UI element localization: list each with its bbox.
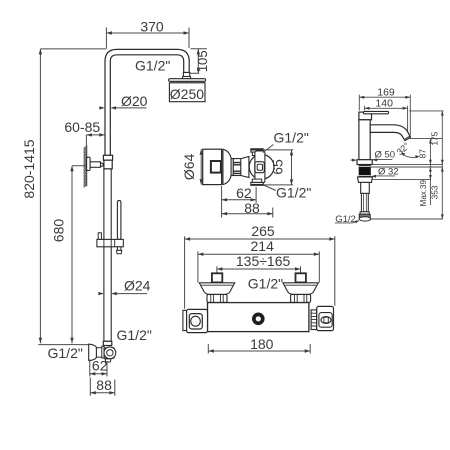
- slider block on rail: [103, 155, 112, 169]
- mixer body trapezoid: [241, 157, 249, 178]
- sliding rail tube: [104, 169, 111, 341]
- label diameter 32 with leader: [371, 166, 399, 177]
- label G1/2 inch mixer top inlet: [263, 130, 309, 153]
- svg-text:87: 87: [417, 149, 427, 159]
- wall elbow outlet: [105, 359, 111, 362]
- wall elbow body square: [104, 348, 114, 358]
- left union nut: [207, 294, 227, 302]
- svg-text:G1/2": G1/2": [117, 327, 152, 343]
- dimension diameter 64 (handle): [181, 149, 203, 184]
- mixer front outlet square: [255, 162, 264, 173]
- svg-text:60-85: 60-85: [64, 119, 100, 135]
- svg-text:Ø64: Ø64: [181, 153, 197, 180]
- dimension 135 to 165 (union centers): [217, 253, 301, 272]
- temperature dial: [252, 313, 265, 326]
- threaded shank: [359, 165, 371, 177]
- dimension 140 (spout reach): [365, 98, 408, 136]
- svg-text:214: 214: [251, 238, 275, 254]
- mixer bottom outlet flange: [251, 179, 263, 185]
- dimension 88 (wall to elbow front): [90, 377, 115, 396]
- svg-text:Ø20: Ø20: [121, 93, 148, 109]
- dimension 87 and Max39 line: [417, 139, 431, 205]
- svg-text:G1/2": G1/2": [135, 58, 170, 74]
- label G1/2 inch mixer bottom outlet: [264, 184, 312, 200]
- shower head connector: [182, 73, 191, 79]
- svg-text:353: 353: [429, 185, 439, 199]
- shower head top plate: [169, 79, 206, 82]
- shower head body with label: [169, 83, 205, 102]
- wall hatching: [84, 145, 87, 188]
- wall elbow neck: [96, 348, 101, 357]
- wall elbow washer: [102, 346, 104, 358]
- svg-text:Ø 50: Ø 50: [375, 149, 396, 160]
- svg-text:G1/2": G1/2": [276, 184, 311, 200]
- svg-text:65: 65: [269, 159, 285, 175]
- holder knob: [98, 233, 101, 240]
- hose end fitting: [359, 212, 371, 221]
- dimension 62 (mixer depth to outlet): [222, 185, 257, 218]
- svg-text:180: 180: [250, 336, 274, 352]
- angle arc with arrows: [401, 153, 420, 159]
- mixer handle face square: [211, 161, 221, 173]
- mounting nut: [358, 177, 373, 194]
- svg-text:175: 175: [429, 131, 439, 145]
- label diameter 50 with leader: [350, 149, 395, 161]
- wall bracket arm: [90, 162, 103, 168]
- svg-text:62: 62: [92, 357, 108, 373]
- mixer handle cylinder: [203, 149, 222, 184]
- svg-text:88: 88: [96, 377, 112, 393]
- dimension 62 (wall to elbow center): [90, 357, 108, 376]
- svg-text:Max.39: Max.39: [419, 180, 428, 207]
- dimension 175 and 353 line: [429, 111, 443, 219]
- wall elbow bell: [89, 344, 97, 360]
- shower riser pipe with bent arm: [105, 49, 189, 155]
- svg-text:62: 62: [236, 185, 252, 201]
- dimension 680 (bracket to elbow): [51, 166, 87, 343]
- reference lines right side: [371, 111, 444, 219]
- hand shower holder: [97, 239, 123, 246]
- left union cover bell: [199, 283, 234, 295]
- faucet base flange: [357, 160, 372, 165]
- mixer front strip: [255, 151, 265, 183]
- spout aerator line: [405, 136, 410, 139]
- right union nut: [291, 294, 311, 302]
- svg-text:135÷165: 135÷165: [236, 253, 291, 269]
- mixer top inlet flange: [251, 149, 263, 156]
- left end ring: [183, 310, 187, 330]
- svg-text:G1/2": G1/2": [248, 276, 283, 292]
- right end ring: [311, 310, 317, 330]
- svg-text:105: 105: [195, 50, 210, 72]
- right union cover bell: [283, 283, 318, 295]
- dimension 105 (arm to head): [190, 49, 210, 74]
- dimension diameter 24: [98, 277, 150, 295]
- dimension diameter 20: [99, 93, 147, 109]
- right union stub: [296, 273, 306, 282]
- dimension 180 (bar body width): [208, 336, 310, 353]
- dimension 820-1415 (column height range): [21, 49, 106, 345]
- svg-text:680: 680: [51, 219, 67, 243]
- dimension 88 (mixer total depth): [222, 200, 273, 218]
- wall bracket flange: [87, 157, 91, 170]
- svg-text:Ø250: Ø250: [170, 86, 204, 102]
- svg-text:G1/2": G1/2": [48, 345, 83, 361]
- mixer bar body: [208, 303, 309, 332]
- hand shower wand: [117, 201, 121, 240]
- svg-text:G1/2": G1/2": [274, 130, 309, 146]
- faucet spout: [370, 125, 410, 141]
- rail bottom connector: [103, 341, 112, 345]
- hand shower hose connector: [117, 247, 122, 254]
- faucet lever handle: [364, 111, 389, 113]
- wall elbow body circle: [104, 347, 116, 359]
- svg-text:G1/2: G1/2: [335, 214, 356, 225]
- dimension 265 (bar total width): [185, 223, 335, 309]
- left end knob: [187, 309, 208, 332]
- label G1/2 hose thread with leader: [335, 214, 359, 225]
- mixer body circle: [249, 154, 274, 179]
- svg-text:Ø24: Ø24: [124, 277, 151, 293]
- mixer handle skirt cone: [223, 149, 231, 184]
- dimension 169 (faucet total depth): [359, 87, 410, 136]
- dimension 370 (shower arm width): [106, 19, 189, 49]
- svg-text:820-1415: 820-1415: [21, 139, 37, 198]
- dimension 60-85 (wall to pipe): [64, 119, 104, 145]
- faucet cartridge cap: [359, 112, 372, 120]
- svg-text:88: 88: [244, 200, 260, 216]
- svg-text:265: 265: [251, 223, 275, 239]
- left union stub: [212, 273, 222, 282]
- svg-text:140: 140: [375, 98, 393, 110]
- mixer cartridge ring: [231, 159, 241, 176]
- dimension 214 (union covers width): [198, 238, 319, 282]
- svg-text:370: 370: [140, 19, 164, 35]
- faucet body column: [359, 120, 370, 160]
- dimension 65 (fitting spacing): [264, 150, 294, 185]
- shower head spray nozzles: [172, 82, 204, 83]
- threaded rod: [361, 193, 368, 211]
- right end flow knob: [317, 306, 334, 330]
